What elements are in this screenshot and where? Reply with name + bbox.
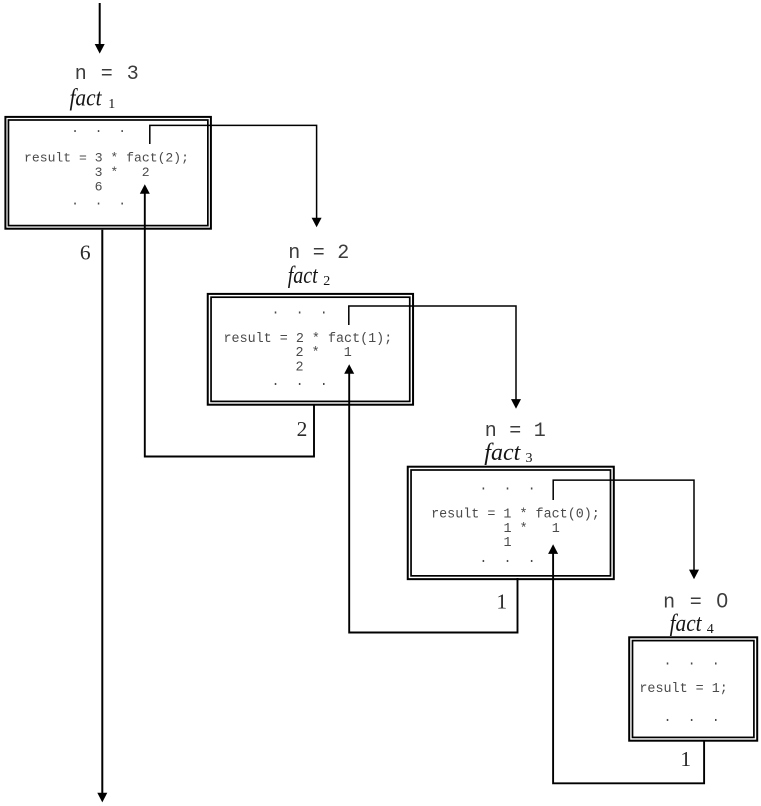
svg-text:. . .: . . . <box>479 479 535 494</box>
wire final return value 6 arrow <box>97 230 107 803</box>
wire call fact2 to fact3 <box>349 306 521 409</box>
node fact 4 label <box>670 611 714 637</box>
svg-text:n = 3: n = 3 <box>75 63 139 86</box>
box fact4 code <box>639 654 727 726</box>
svg-text:fact: fact <box>70 85 103 111</box>
svg-text:2 * 1: 2 * 1 <box>296 346 352 361</box>
wire return fact4 to fact3 <box>548 544 704 783</box>
box fact2 code <box>224 304 393 390</box>
svg-text:4: 4 <box>707 622 714 637</box>
svg-text:fact: fact <box>288 263 319 289</box>
svg-text:result = 2 * fact(1);: result = 2 * fact(1); <box>224 332 393 347</box>
svg-text:1: 1 <box>504 536 512 551</box>
node fact 1 label <box>70 85 116 112</box>
svg-text:result = 3 * fact(2);: result = 3 * fact(2); <box>24 151 189 166</box>
wire call fact1 to fact2 <box>150 125 322 227</box>
svg-text:2: 2 <box>297 417 308 441</box>
wire return fact2 to fact1 <box>140 184 314 456</box>
svg-text:. . .: . . . <box>664 654 720 669</box>
svg-text:1 * 1: 1 * 1 <box>504 522 560 537</box>
svg-text:result = 1 * fact(0);: result = 1 * fact(0); <box>431 508 600 523</box>
box fact2 frame <box>208 294 413 405</box>
svg-text:2: 2 <box>323 274 330 289</box>
svg-text:3 * 2: 3 * 2 <box>95 165 150 180</box>
svg-text:3: 3 <box>526 451 533 466</box>
box fact1 code <box>24 121 189 209</box>
svg-text:1: 1 <box>496 590 507 614</box>
svg-text:. . .: . . . <box>272 304 328 319</box>
wire return fact3 to fact2 <box>344 364 517 632</box>
wire call fact3 to fact4 <box>553 480 699 579</box>
svg-text:. . .: . . . <box>664 711 720 726</box>
box fact3 frame <box>408 467 614 579</box>
svg-text:. . .: . . . <box>272 375 328 390</box>
svg-text:. . .: . . . <box>71 121 126 136</box>
wire entry arrow into fact1 <box>95 3 105 54</box>
svg-text:fact: fact <box>670 611 703 637</box>
svg-text:fact: fact <box>484 440 521 466</box>
svg-text:n = 2: n = 2 <box>288 242 349 265</box>
svg-text:result = 1;: result = 1; <box>639 682 727 697</box>
node fact 2 label <box>288 263 331 289</box>
node fact 3 label <box>484 440 532 466</box>
box fact3 code <box>431 479 600 567</box>
svg-text:1: 1 <box>108 97 115 112</box>
box fact4 frame <box>629 637 757 740</box>
svg-text:2: 2 <box>296 360 304 375</box>
box fact1 frame <box>5 117 211 229</box>
svg-text:. . .: . . . <box>71 193 126 208</box>
svg-text:. . .: . . . <box>479 552 535 567</box>
svg-text:1: 1 <box>680 747 691 771</box>
svg-text:6: 6 <box>80 241 91 265</box>
